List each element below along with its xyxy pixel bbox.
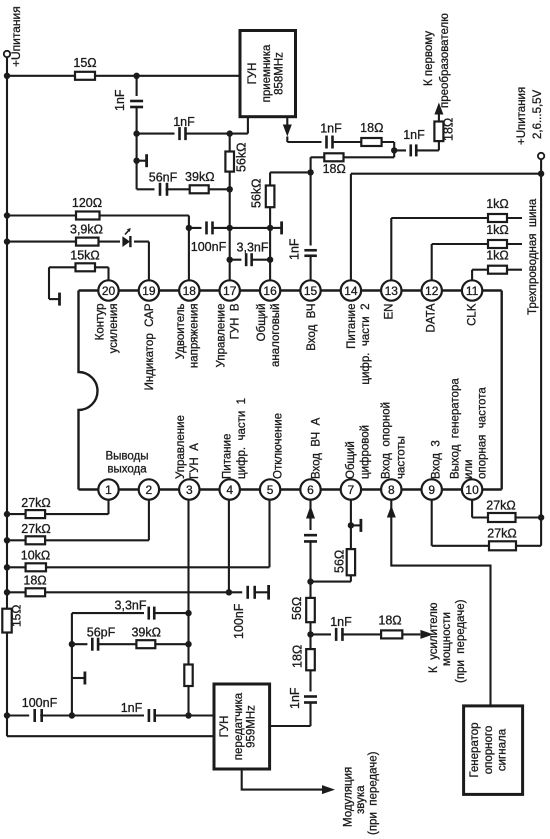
svg-text:цифр. части 2: цифр. части 2 xyxy=(360,304,372,385)
svg-text:56kΩ: 56kΩ xyxy=(250,179,264,209)
svg-text:3: 3 xyxy=(186,483,193,497)
svg-text:аналоговый: аналоговый xyxy=(270,304,282,368)
svg-text:18Ω: 18Ω xyxy=(442,118,456,141)
svg-text:56kΩ: 56kΩ xyxy=(235,143,249,173)
svg-text:ГУН В: ГУН В xyxy=(230,303,242,339)
svg-text:1nF: 1nF xyxy=(288,687,302,709)
svg-text:цифр. части 1: цифр. части 1 xyxy=(236,398,248,479)
svg-text:100nF: 100nF xyxy=(232,603,246,639)
svg-text:2: 2 xyxy=(146,483,153,497)
svg-text:напряжения: напряжения xyxy=(189,304,201,369)
svg-text:100nF: 100nF xyxy=(191,240,227,254)
svg-text:Общий: Общий xyxy=(256,304,268,342)
svg-text:передатчика: передатчика xyxy=(233,692,245,760)
svg-text:1nF: 1nF xyxy=(113,89,127,111)
svg-text:Общий: Общий xyxy=(345,441,357,479)
svg-text:100nF: 100nF xyxy=(22,696,58,710)
svg-text:56Ω: 56Ω xyxy=(333,550,347,573)
svg-text:звука: звука xyxy=(355,785,367,814)
svg-text:Вход опорной: Вход опорной xyxy=(381,402,393,479)
svg-text:20: 20 xyxy=(102,284,116,298)
svg-text:Вход ВЧ: Вход ВЧ xyxy=(306,304,318,351)
svg-text:приемника: приемника xyxy=(261,44,273,102)
svg-text:27kΩ: 27kΩ xyxy=(21,496,51,510)
svg-text:1nF: 1nF xyxy=(288,238,302,260)
svg-text:17: 17 xyxy=(223,284,237,298)
svg-text:(при передаче): (при передаче) xyxy=(368,751,380,835)
svg-text:11: 11 xyxy=(466,284,479,298)
svg-text:12: 12 xyxy=(425,284,439,298)
svg-text:4: 4 xyxy=(226,483,233,497)
svg-text:18Ω: 18Ω xyxy=(323,162,346,176)
svg-text:2,6...5,5V: 2,6...5,5V xyxy=(532,89,544,139)
svg-text:К первому: К первому xyxy=(423,31,435,86)
svg-text:Отключение: Отключение xyxy=(273,413,285,479)
svg-text:+Uпитания: +Uпитания xyxy=(516,87,528,145)
svg-text:Питание: Питание xyxy=(346,304,358,349)
svg-text:9: 9 xyxy=(428,483,435,497)
svg-text:18Ω: 18Ω xyxy=(291,645,305,668)
svg-text:мощности: мощности xyxy=(441,612,453,666)
svg-text:39kΩ: 39kΩ xyxy=(185,170,215,184)
svg-text:19: 19 xyxy=(142,284,156,298)
svg-text:опорного: опорного xyxy=(483,726,495,775)
svg-text:CLK: CLK xyxy=(467,303,479,326)
svg-text:18: 18 xyxy=(183,284,197,298)
svg-text:18Ω: 18Ω xyxy=(23,574,46,588)
svg-text:15: 15 xyxy=(304,284,318,298)
svg-text:частоты: частоты xyxy=(396,436,408,479)
svg-text:15kΩ: 15kΩ xyxy=(70,249,100,263)
svg-text:или: или xyxy=(463,459,475,479)
svg-text:ГУН: ГУН xyxy=(247,63,259,85)
svg-text:1nF: 1nF xyxy=(320,122,342,136)
svg-text:15Ω: 15Ω xyxy=(73,56,96,70)
svg-text:Выход генератора: Выход генератора xyxy=(450,378,462,479)
svg-text:5: 5 xyxy=(267,483,274,497)
svg-text:сигнала: сигнала xyxy=(497,728,509,771)
svg-text:Модуляция: Модуляция xyxy=(343,767,355,827)
svg-text:1: 1 xyxy=(105,483,112,497)
svg-text:858MHz: 858MHz xyxy=(274,52,286,95)
svg-text:13: 13 xyxy=(385,284,399,298)
svg-text:56Ω: 56Ω xyxy=(290,597,304,620)
svg-text:преобразователю: преобразователю xyxy=(439,13,451,108)
svg-text:18Ω: 18Ω xyxy=(360,121,383,135)
svg-text:Вход ВЧ А: Вход ВЧ А xyxy=(311,417,323,479)
svg-text:3,3nF: 3,3nF xyxy=(115,599,147,613)
svg-text:6: 6 xyxy=(307,483,314,497)
svg-text:10: 10 xyxy=(465,483,479,497)
svg-text:56pF: 56pF xyxy=(87,626,116,640)
svg-text:1nF: 1nF xyxy=(121,701,143,715)
svg-text:К усилителю: К усилителю xyxy=(428,602,440,673)
svg-text:1nF: 1nF xyxy=(173,115,195,129)
svg-text:10kΩ: 10kΩ xyxy=(21,549,51,563)
svg-text:EN: EN xyxy=(384,304,396,320)
svg-text:3,9kΩ: 3,9kΩ xyxy=(70,223,103,237)
svg-text:120Ω: 120Ω xyxy=(72,196,102,210)
svg-text:Удвоитель: Удвоитель xyxy=(175,304,187,360)
svg-text:39kΩ: 39kΩ xyxy=(131,626,161,640)
svg-text:Контур: Контур xyxy=(95,304,107,341)
svg-text:Управление: Управление xyxy=(216,304,228,368)
svg-text:1kΩ: 1kΩ xyxy=(486,249,509,263)
svg-text:Питание: Питание xyxy=(222,434,234,479)
svg-text:Генератор: Генератор xyxy=(469,722,481,777)
svg-text:1kΩ: 1kΩ xyxy=(486,197,509,211)
svg-text:выхода: выхода xyxy=(107,464,147,476)
svg-text:18Ω: 18Ω xyxy=(378,614,401,628)
svg-text:1kΩ: 1kΩ xyxy=(486,223,509,237)
svg-text:Вход 3: Вход 3 xyxy=(431,440,443,479)
svg-text:3,3nF: 3,3nF xyxy=(237,241,269,255)
svg-text:ГУН А: ГУН А xyxy=(189,443,201,479)
svg-text:27kΩ: 27kΩ xyxy=(21,522,51,536)
svg-text:ГУН: ГУН xyxy=(219,716,231,738)
svg-text:+Uпитания: +Uпитания xyxy=(9,6,23,67)
svg-text:1nF: 1nF xyxy=(403,128,425,142)
svg-text:56nF: 56nF xyxy=(149,171,178,185)
svg-text:14: 14 xyxy=(344,284,358,298)
svg-text:Управление: Управление xyxy=(175,415,187,479)
svg-text:15Ω: 15Ω xyxy=(10,605,24,627)
svg-text:опорная частота: опорная частота xyxy=(477,387,489,479)
svg-text:27kΩ: 27kΩ xyxy=(486,499,516,513)
svg-text:Индикатор САР: Индикатор САР xyxy=(144,303,156,390)
svg-text:цифровой: цифровой xyxy=(360,425,372,479)
svg-text:(при передаче): (при передаче) xyxy=(455,599,467,683)
svg-text:усиления: усиления xyxy=(108,304,120,354)
svg-text:8: 8 xyxy=(388,483,395,497)
svg-text:959MHz: 959MHz xyxy=(246,705,258,748)
svg-text:Трехпроводная шина: Трехпроводная шина xyxy=(527,198,539,315)
svg-text:Выводы: Выводы xyxy=(105,451,148,463)
svg-text:7: 7 xyxy=(348,483,355,497)
svg-text:16: 16 xyxy=(263,284,277,298)
svg-text:27kΩ: 27kΩ xyxy=(487,527,517,541)
svg-text:1nF: 1nF xyxy=(330,615,352,629)
svg-text:DATA: DATA xyxy=(426,303,438,332)
